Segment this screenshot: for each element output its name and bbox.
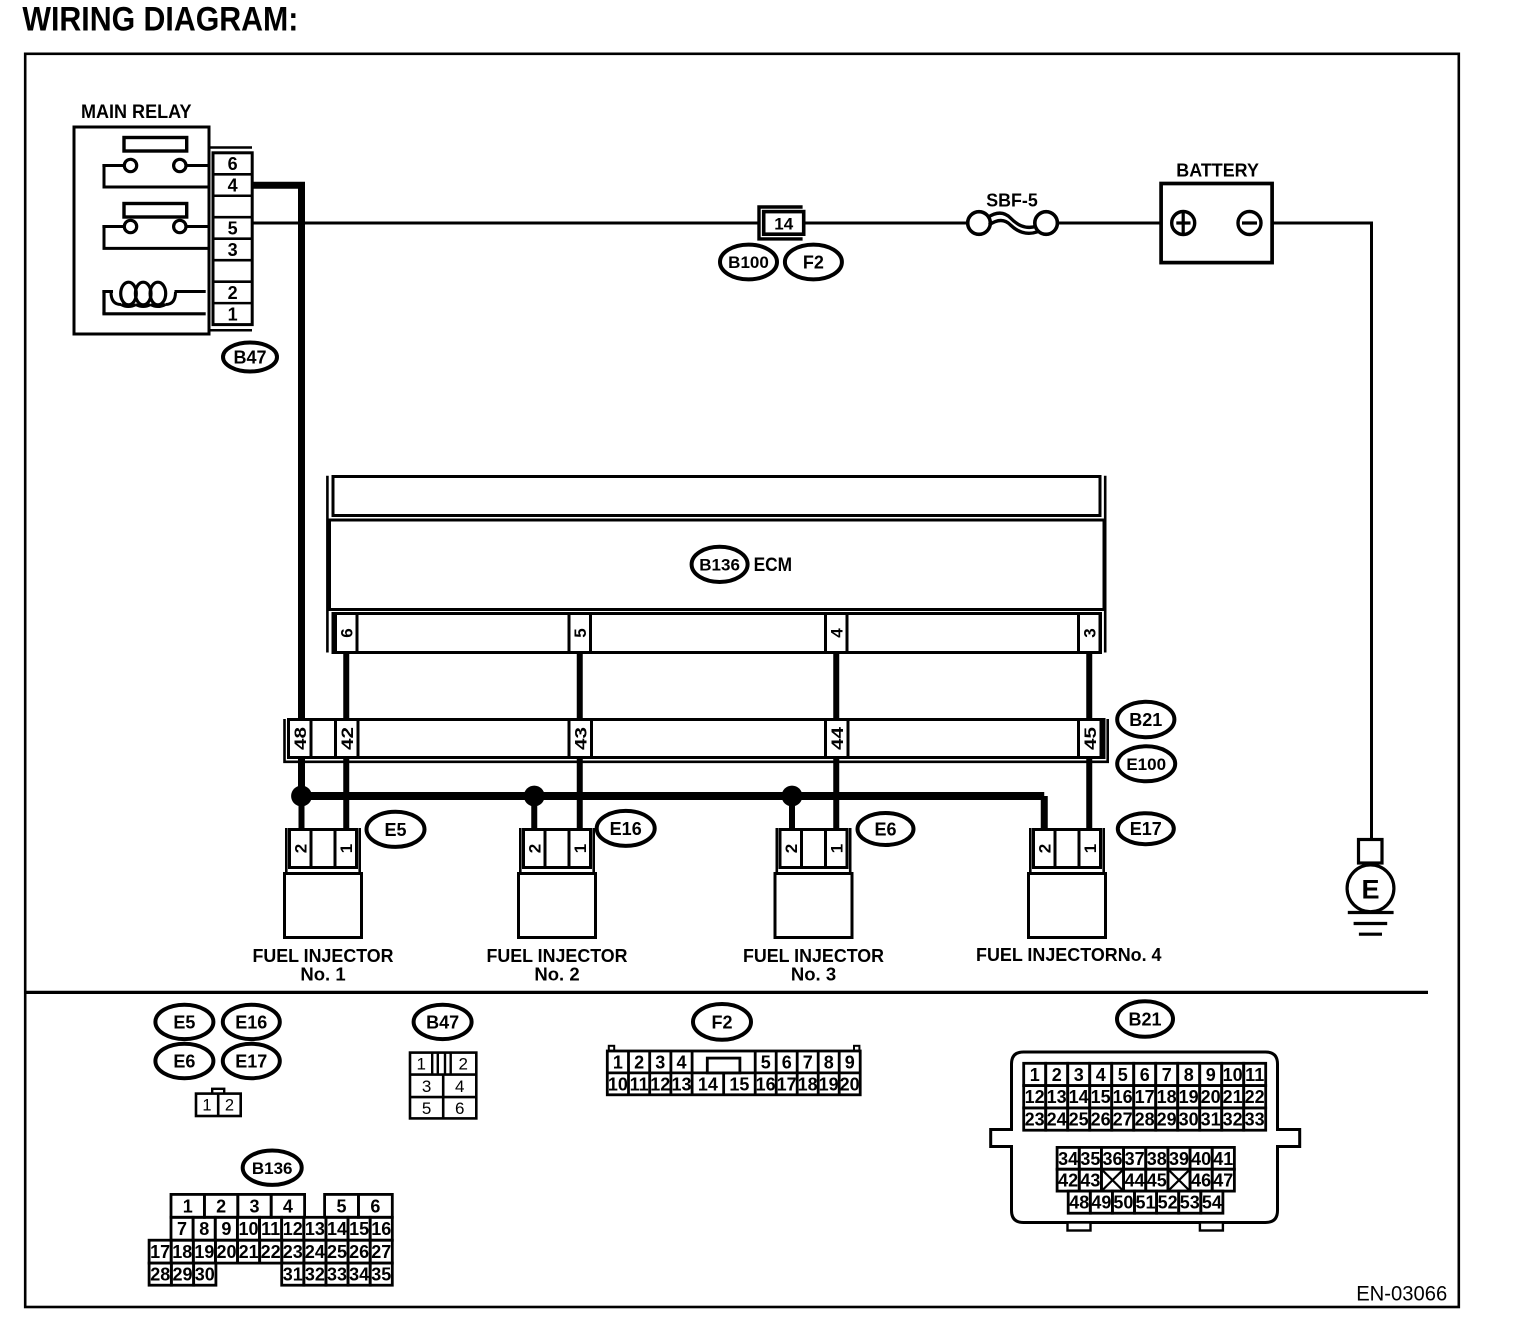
svg-text:B136: B136 [252, 1159, 293, 1178]
injector 4 pin 2 [1035, 844, 1054, 853]
svg-text:15: 15 [349, 1219, 369, 1239]
svg-text:23: 23 [283, 1242, 303, 1262]
svg-text:14: 14 [698, 1074, 718, 1094]
svg-text:6: 6 [455, 1099, 464, 1118]
injector 1 pin 2 [291, 844, 310, 853]
svg-text:47: 47 [1213, 1171, 1233, 1191]
fuel injector No.4 body [1029, 874, 1106, 938]
svg-text:44: 44 [1125, 1171, 1145, 1191]
svg-text:25: 25 [1069, 1110, 1089, 1130]
svg-text:26: 26 [1091, 1110, 1111, 1130]
svg-text:9: 9 [221, 1219, 231, 1239]
title WIRING DIAGRAM [22, 0, 298, 38]
injector 3 pin 1 [827, 844, 846, 853]
connector B47 pinout [410, 1053, 476, 1119]
svg-text:E6: E6 [874, 819, 896, 839]
svg-text:48: 48 [1069, 1193, 1089, 1213]
wire row pin to injector 3 pin 1 [833, 758, 839, 830]
fuel injector No.1 connector [286, 828, 359, 874]
connector ref F2 [785, 245, 842, 280]
svg-text:7: 7 [803, 1052, 813, 1072]
svg-text:42: 42 [338, 727, 357, 750]
svg-text:5: 5 [1118, 1065, 1128, 1085]
svg-text:19: 19 [1179, 1087, 1199, 1107]
svg-text:32: 32 [1223, 1110, 1243, 1130]
svg-text:2: 2 [525, 844, 544, 853]
injector 3 pin 2 [782, 844, 801, 853]
fuel injector No.3 connector [777, 828, 850, 874]
wire bus to injector 3 pin 2 [789, 796, 795, 830]
wire battery negative to ground drop [1261, 223, 1372, 840]
svg-text:BATTERY: BATTERY [1176, 161, 1259, 181]
svg-text:4: 4 [283, 1196, 293, 1216]
svg-text:18: 18 [172, 1242, 192, 1262]
svg-text:E6: E6 [173, 1051, 195, 1071]
svg-text:ECM: ECM [754, 555, 793, 576]
svg-text:31: 31 [283, 1265, 303, 1285]
wire bus to injector 1 pin 2 [299, 796, 305, 830]
injector 2 pin 1 [571, 844, 590, 853]
svg-text:30: 30 [1179, 1110, 1199, 1130]
svg-text:3: 3 [1080, 628, 1099, 637]
svg-text:E17: E17 [235, 1051, 267, 1071]
svg-text:33: 33 [1245, 1110, 1265, 1130]
svg-text:B136: B136 [699, 556, 740, 575]
wire relay pin4 to injector bus (thick) [252, 185, 302, 719]
svg-text:38: 38 [1147, 1149, 1167, 1169]
svg-text:5: 5 [228, 218, 238, 238]
ECM pin 5 [571, 628, 590, 637]
svg-text:E100: E100 [1126, 755, 1166, 774]
ECM pin 6 [337, 628, 356, 637]
svg-text:16: 16 [1113, 1087, 1133, 1107]
svg-text:4: 4 [228, 175, 238, 195]
svg-text:1: 1 [202, 1097, 211, 1115]
svg-text:2: 2 [782, 844, 801, 853]
svg-text:52: 52 [1158, 1193, 1178, 1213]
F2 pin numbers [608, 1052, 860, 1094]
svg-text:6: 6 [1140, 1065, 1150, 1085]
svg-text:1: 1 [337, 844, 356, 853]
svg-text:2: 2 [634, 1052, 644, 1072]
svg-text:48: 48 [291, 727, 310, 750]
ECM pin 3 [1080, 628, 1099, 637]
connector ref E100 (row) [1117, 746, 1175, 781]
connector F2 pinout [607, 1046, 860, 1095]
svg-text:12: 12 [650, 1074, 670, 1094]
battery positive terminal [1172, 212, 1195, 235]
connector ref B100 [720, 245, 777, 280]
svg-text:No. 3: No. 3 [791, 964, 836, 985]
relay contact bar 2 [124, 204, 187, 218]
svg-text:7: 7 [177, 1219, 187, 1239]
svg-text:25: 25 [327, 1242, 347, 1262]
wire relay pin5 to fuse 14 [252, 222, 758, 225]
injector 1 pin 1 [337, 844, 356, 853]
svg-text:4: 4 [455, 1077, 464, 1096]
svg-text:5: 5 [422, 1099, 431, 1118]
svg-text:1: 1 [416, 1055, 425, 1074]
fuse 14 [759, 207, 804, 239]
svg-text:50: 50 [1113, 1193, 1133, 1213]
fuel injector No.4 label [976, 944, 1162, 965]
wire SBF-5 to battery [1055, 222, 1172, 225]
svg-text:E17: E17 [1130, 819, 1162, 839]
svg-text:11: 11 [630, 1074, 649, 1094]
injector 2 pin 2 [525, 844, 544, 853]
connector B21 pinout body [991, 1052, 1300, 1231]
svg-text:20: 20 [1201, 1087, 1221, 1107]
svg-text:43: 43 [571, 727, 590, 750]
svg-text:8: 8 [824, 1052, 834, 1072]
svg-text:10: 10 [1223, 1065, 1243, 1085]
relay coil [102, 282, 205, 314]
svg-text:4: 4 [1096, 1065, 1106, 1085]
svg-text:5: 5 [571, 628, 590, 637]
svg-text:B100: B100 [728, 253, 769, 272]
connector ref E16 (injector 2) [597, 811, 655, 846]
fuel injector No.4 connector [1030, 828, 1103, 874]
svg-text:32: 32 [305, 1265, 325, 1285]
ECM label [754, 555, 793, 576]
main relay box [74, 127, 209, 334]
svg-text:17: 17 [1135, 1087, 1155, 1107]
connector row B21/E100 bracket [285, 719, 1108, 762]
svg-text:46: 46 [1191, 1171, 1211, 1191]
connector B47 (relay) [210, 148, 253, 331]
row pin 42 [338, 727, 357, 750]
svg-text:42: 42 [1058, 1171, 1078, 1191]
svg-text:22: 22 [1245, 1087, 1265, 1107]
svg-text:18: 18 [1157, 1087, 1177, 1107]
svg-text:44: 44 [828, 726, 847, 750]
svg-text:3: 3 [1074, 1065, 1084, 1085]
svg-text:B47: B47 [426, 1012, 459, 1032]
svg-text:51: 51 [1136, 1193, 1156, 1213]
svg-text:13: 13 [671, 1074, 691, 1094]
svg-text:No. 1: No. 1 [300, 964, 345, 985]
svg-text:37: 37 [1125, 1149, 1145, 1169]
svg-text:28: 28 [1135, 1110, 1155, 1130]
connector view ref F2 [693, 1004, 751, 1040]
wire row pin to injector 4 pin 1 [1086, 758, 1092, 830]
svg-text:8: 8 [1184, 1065, 1194, 1085]
connector ref B47 [223, 343, 277, 372]
connector B136 pinout [149, 1194, 392, 1285]
svg-text:29: 29 [172, 1265, 192, 1285]
svg-text:45: 45 [1147, 1171, 1167, 1191]
connector view ref B21 [1117, 1001, 1173, 1036]
fuel injector No.3 body [775, 874, 852, 938]
svg-text:36: 36 [1102, 1149, 1122, 1169]
svg-text:B21: B21 [1129, 710, 1162, 730]
fuel injector No.1 label [253, 945, 394, 985]
svg-text:49: 49 [1091, 1193, 1111, 1213]
svg-text:45: 45 [1081, 727, 1100, 750]
svg-text:7: 7 [1162, 1065, 1172, 1085]
svg-text:12: 12 [1025, 1087, 1045, 1107]
svg-text:E16: E16 [235, 1012, 267, 1032]
svg-text:4: 4 [676, 1052, 686, 1072]
fuel injector No.2 connector [520, 828, 593, 874]
row pin 44 [828, 726, 847, 750]
battery [1161, 161, 1272, 263]
svg-text:17: 17 [150, 1242, 170, 1262]
svg-text:20: 20 [216, 1242, 236, 1262]
fuel injector No.3 label [743, 945, 884, 985]
injector 4 pin 1 [1081, 844, 1100, 853]
svg-text:21: 21 [1223, 1087, 1243, 1107]
svg-text:EN-03066: EN-03066 [1356, 1282, 1447, 1305]
svg-text:29: 29 [1157, 1110, 1177, 1130]
svg-text:26: 26 [349, 1242, 369, 1262]
ECM bracket lines [327, 476, 1105, 653]
svg-text:10: 10 [608, 1074, 628, 1094]
ECM pin row B136 [333, 614, 1101, 653]
svg-text:FUEL INJECTORNo. 4: FUEL INJECTORNo. 4 [976, 944, 1162, 965]
junction node injector 2 [524, 786, 545, 807]
svg-text:53: 53 [1180, 1193, 1200, 1213]
svg-text:27: 27 [371, 1242, 391, 1262]
svg-text:2: 2 [291, 844, 310, 853]
relay contact bar 1 [124, 138, 187, 152]
svg-text:14: 14 [774, 214, 793, 233]
wire row pin to injector 2 pin 1 [577, 758, 583, 830]
svg-text:6: 6 [228, 154, 238, 174]
svg-text:24: 24 [1047, 1110, 1067, 1130]
svg-text:39: 39 [1169, 1149, 1189, 1169]
svg-text:1: 1 [571, 844, 590, 853]
row pin 45 [1081, 727, 1100, 750]
svg-text:15: 15 [729, 1074, 749, 1094]
svg-text:5: 5 [336, 1196, 346, 1216]
connector view refs E5 E16 E6 E17 [155, 1005, 213, 1039]
svg-text:6: 6 [782, 1052, 792, 1072]
svg-text:8: 8 [199, 1219, 209, 1239]
B21 pin grid top (1-33) [1024, 1063, 1266, 1130]
svg-text:33: 33 [327, 1265, 347, 1285]
svg-text:B21: B21 [1128, 1009, 1161, 1029]
svg-text:17: 17 [777, 1074, 797, 1094]
svg-text:3: 3 [655, 1052, 665, 1072]
svg-text:2: 2 [1035, 844, 1054, 853]
svg-text:14: 14 [327, 1219, 347, 1239]
svg-text:13: 13 [305, 1219, 325, 1239]
svg-text:3: 3 [228, 240, 238, 260]
svg-text:6: 6 [370, 1196, 380, 1216]
svg-text:41: 41 [1213, 1149, 1233, 1169]
svg-text:23: 23 [1025, 1110, 1045, 1130]
svg-text:1: 1 [183, 1196, 193, 1216]
fusible link SBF-5 [968, 190, 1058, 234]
svg-text:35: 35 [1080, 1149, 1100, 1169]
svg-text:11: 11 [1245, 1065, 1264, 1085]
svg-text:31: 31 [1201, 1110, 1221, 1130]
svg-text:F2: F2 [711, 1012, 732, 1032]
svg-text:1: 1 [1030, 1065, 1040, 1085]
svg-text:28: 28 [150, 1265, 170, 1285]
fuel injector No.2 label [487, 945, 628, 985]
junction node injector 1 [291, 786, 312, 807]
svg-text:15: 15 [1091, 1087, 1111, 1107]
svg-text:1: 1 [1081, 844, 1100, 853]
injector supply bus wire [302, 796, 1045, 830]
svg-text:1: 1 [228, 304, 238, 324]
svg-text:E5: E5 [173, 1012, 195, 1032]
svg-text:1: 1 [827, 844, 846, 853]
svg-text:9: 9 [1206, 1065, 1216, 1085]
B21 pin grid bottom (34-54) [1057, 1147, 1234, 1213]
svg-text:3: 3 [249, 1196, 259, 1216]
drawing number EN-03066 [1356, 1282, 1447, 1305]
svg-text:E16: E16 [610, 819, 642, 839]
svg-text:B47: B47 [233, 347, 266, 367]
connector ref B21 (row) [1117, 702, 1174, 737]
svg-text:2: 2 [1052, 1065, 1062, 1085]
svg-text:14: 14 [1069, 1087, 1089, 1107]
svg-text:E5: E5 [384, 820, 406, 840]
wire ECM pin 4 to row pin 44 [833, 653, 839, 720]
ECM top strip [333, 477, 1100, 516]
svg-text:19: 19 [819, 1074, 839, 1094]
fuel injector No.1 body [285, 874, 362, 938]
connector view ref B47 [414, 1005, 472, 1039]
svg-text:2: 2 [458, 1055, 467, 1074]
svg-text:20: 20 [840, 1074, 860, 1094]
wire ECM pin 3 to row pin 45 [1086, 653, 1092, 720]
svg-text:40: 40 [1191, 1149, 1211, 1169]
svg-text:24: 24 [305, 1242, 325, 1262]
svg-text:54: 54 [1202, 1193, 1222, 1213]
svg-text:12: 12 [283, 1219, 303, 1239]
relay switch 2 [102, 220, 207, 248]
wire row pin 48 down to bus [298, 758, 305, 797]
svg-text:22: 22 [261, 1242, 281, 1262]
wire ECM pin 6 to row pin 42 [343, 653, 349, 720]
wire ECM pin 5 to row pin 43 [577, 653, 583, 720]
svg-text:No. 2: No. 2 [534, 964, 579, 985]
svg-text:13: 13 [1047, 1087, 1067, 1107]
svg-text:19: 19 [194, 1242, 214, 1262]
svg-text:MAIN RELAY: MAIN RELAY [81, 102, 192, 123]
fuel injector No.2 body [519, 874, 596, 938]
svg-text:10: 10 [238, 1219, 258, 1239]
svg-text:2: 2 [216, 1196, 226, 1216]
svg-text:4: 4 [827, 628, 846, 638]
svg-text:SBF-5: SBF-5 [986, 190, 1038, 210]
row pin 48 [291, 727, 310, 750]
connector view ref B136 [243, 1151, 302, 1185]
row pin 43 [571, 727, 590, 750]
battery negative terminal [1238, 212, 1261, 235]
svg-text:WIRING DIAGRAM:: WIRING DIAGRAM: [22, 0, 298, 38]
svg-text:3: 3 [422, 1077, 431, 1096]
wire bus to injector 2 pin 2 [531, 796, 537, 830]
svg-text:16: 16 [756, 1074, 776, 1094]
svg-text:21: 21 [239, 1242, 259, 1262]
connector ref E17 (injector 4) [1118, 813, 1174, 844]
main relay label [81, 102, 192, 123]
svg-text:1: 1 [613, 1052, 623, 1072]
svg-text:F2: F2 [803, 252, 824, 272]
svg-text:43: 43 [1080, 1171, 1100, 1191]
svg-text:5: 5 [761, 1052, 771, 1072]
svg-text:18: 18 [798, 1074, 818, 1094]
svg-text:E: E [1361, 875, 1379, 905]
connector row B21/E100 [289, 720, 1105, 758]
svg-text:9: 9 [845, 1052, 855, 1072]
svg-text:11: 11 [261, 1219, 280, 1239]
svg-text:6: 6 [337, 628, 356, 637]
junction node injector 3 [782, 786, 803, 807]
connector ref E5 (injector 1) [367, 812, 425, 847]
ECM main box [330, 520, 1105, 610]
connector ref E6 (injector 3) [858, 813, 914, 845]
svg-text:34: 34 [1058, 1149, 1078, 1169]
svg-text:16: 16 [371, 1219, 391, 1239]
svg-text:35: 35 [371, 1265, 391, 1285]
connector ref B136 (ECM) [692, 547, 748, 582]
svg-text:2: 2 [228, 283, 238, 303]
svg-text:2: 2 [225, 1097, 234, 1115]
ground E [1347, 840, 1394, 935]
svg-text:30: 30 [195, 1265, 215, 1285]
svg-text:34: 34 [349, 1265, 369, 1285]
wire fuse 14 to SBF-5 [804, 222, 970, 225]
ECM pin 4 [827, 628, 846, 638]
svg-text:27: 27 [1113, 1110, 1133, 1130]
injector connector pinout (2-pin) [196, 1089, 241, 1116]
wire row pin to injector 1 pin 1 [343, 758, 349, 830]
relay switch 1 [102, 159, 207, 187]
